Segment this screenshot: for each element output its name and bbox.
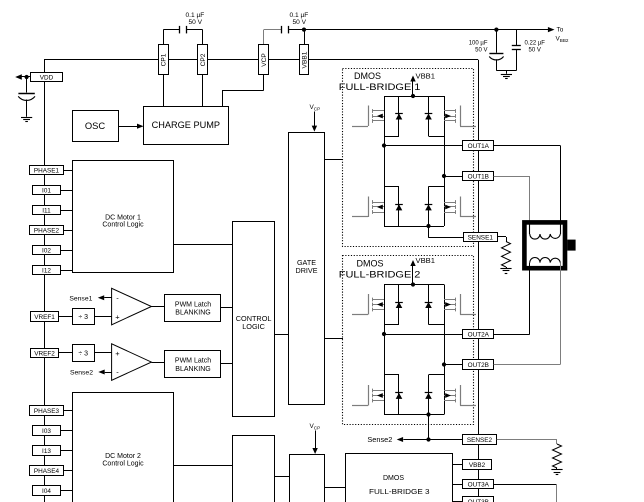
block PWM Latch Blanking 2 [165,351,221,378]
svg-text:Sense2: Sense2 [70,370,93,377]
svg-text:DMOS: DMOS [357,259,384,269]
wire - CP1 riser [163,30,165,45]
pin PHASE1 [30,166,64,175]
diode - bridge 2 low-side right body diode [428,375,430,415]
wire - OUT1A to motor [494,145,561,147]
pin PHASE4 [30,466,64,476]
wire - VCP pin to charge pump [263,75,265,90]
svg-text:100 µF: 100 µF [469,41,488,47]
svg-text:I01: I01 [42,188,51,195]
pin I03 [33,426,61,436]
divider (divide by 3) block 1 [73,309,95,325]
svg-text:DMOS: DMOS [383,473,404,482]
wire - motor to OUT2A [529,263,531,334]
svg-text:CP1: CP1 [161,53,168,66]
node - bridge 2 output B [442,362,446,366]
svg-text:50 V: 50 V [189,19,203,26]
block DMOS FULL-BRIDGE 3 [346,454,453,502]
wire - PWM latch 1 to control logic [221,307,233,309]
capacitor - 0.1uF pump cap CP1-CP2 [179,26,181,34]
wire - PWM latch 2 to control logic [221,363,233,365]
wire - bridge 3 to VBB2 pin [453,464,463,466]
wire - VDD bypass cap lead [26,77,28,93]
inductor - motor winding bottom [530,258,561,263]
wire - bridge 2 low-side left drain link [384,374,399,376]
pin VDD [31,73,63,82]
wire - bridge 2 low-side right drain link [429,374,445,376]
wire - I13 stub [44,450,72,452]
transistor - bridge 1 high-side left DMOS [373,110,385,112]
svg-text:VREF2: VREF2 [34,350,55,357]
node - bridge 2 VBB1 junction [411,282,415,286]
wire - bridge 2 top rail VBB1 [384,284,444,286]
VBB1 supply arrow bridge 2 [412,266,414,285]
wire - bridge 1 top rail VBB1 [384,96,444,98]
pin SENSE1 [464,233,498,242]
diode - bridge 2 high-side left body diode [398,285,400,325]
wire - bridge 1 high-side left source link [384,136,399,138]
svg-text:VREF1: VREF1 [34,314,55,321]
motor M1 (two windings) [524,222,565,268]
svg-text:0.1 µF: 0.1 µF [290,12,309,19]
VBB1 supply arrow bridge 1 [412,81,414,96]
svg-text:FULL-BRIDGE 2: FULL-BRIDGE 2 [339,270,421,280]
diode - bridge 1 low-side left body diode [398,186,400,226]
wire - I01 stub [44,190,72,192]
wire - bridge 1 bottom sense rail [384,226,444,228]
svg-text:OUT3A: OUT3A [468,481,490,488]
wire - VCP riser [263,30,265,45]
pin OUT2B [463,360,494,370]
svg-text:DMOS: DMOS [354,71,381,81]
block DC Motor 2 Control Logic [73,393,174,502]
svg-text:+: + [115,313,120,322]
transistor - bridge 2 low-side right DMOS [444,390,456,392]
block control logic 2 (bottom) [233,436,275,502]
wire - OSC to charge pump arrow [118,126,139,128]
pin OUT1A [463,141,494,151]
svg-text:50 V: 50 V [529,47,541,53]
svg-text:Sense2: Sense2 [367,437,392,444]
node - bridge 2 sense junction [426,412,430,416]
wire - gate drive 2 to bridge 3 [324,487,345,489]
node - bridge 1 output B [442,174,446,178]
capacitor - 0.22uF [512,45,521,47]
pin CP1 [159,45,169,75]
pin I02 [33,246,61,255]
wire - bridge 1 low-side left drain link [384,186,399,188]
diode - bridge 1 high-side left body diode [398,96,400,136]
pin OUT2A [463,330,494,339]
svg-text:OUT1B: OUT1B [468,173,489,180]
svg-text:PHASE2: PHASE2 [34,228,60,235]
svg-text:+: + [115,349,120,358]
svg-text:PWM Latch: PWM Latch [175,358,211,365]
wire - 0.22uF drop [516,30,518,46]
svg-text:OUT2A: OUT2A [468,331,490,338]
svg-text:OSC: OSC [85,120,106,131]
wire - SENSE1 to Rs1 [498,236,507,238]
oscillator OSC [73,111,119,142]
wire - bridge 1 high-side right source link [429,136,445,138]
block CHARGE PUMP [144,107,229,145]
svg-text:BLANKING: BLANKING [175,366,210,373]
wire - bridge 2 sense drop [428,415,430,440]
node - Sense2 junction [426,437,430,441]
wire - OUT2A tap [384,334,463,336]
off-page arrow to VDD supply [15,74,22,79]
wire - bridge 1 sense to SENSE1 pin [428,226,430,238]
capacitor - 0.1uF VCP-VBB1 cap [281,26,283,34]
wire - Sense2 line to SENSE2 pin [403,439,463,441]
arrow - Sense1 into comparator 1 [98,295,104,300]
svg-text:FULL-BRIDGE 3: FULL-BRIDGE 3 [369,487,430,496]
wire - CP1 pin to charge pump [163,75,165,106]
wire - bulk cap drop [496,30,498,53]
wire - PHASE3 stub [44,410,72,412]
svg-text:VDD: VDD [40,74,54,81]
arrow - Sense2 off to comparator [397,437,403,442]
pin VCP [259,45,269,75]
wire - I02 stub [44,250,72,252]
diode - bridge 2 low-side left body diode [398,375,400,415]
svg-text:DRIVE: DRIVE [296,266,318,275]
node - bridge 2 output A [382,332,386,336]
arrow to VBB2 [548,27,555,32]
wire - OUT3A to motor 2 [494,484,557,486]
pin OUT1B [463,172,494,181]
svg-text:SENSE2: SENSE2 [467,437,493,444]
wire - divider 1 to comparator plus [94,316,112,318]
pin I12 [33,266,61,275]
pin CP2 [198,45,208,75]
wire - OUT2B tap [444,364,463,366]
wire - PHASE4 stub [44,470,72,472]
wire - bridge 1 right branch [444,96,446,226]
svg-text:VBB1: VBB1 [416,72,436,81]
svg-text:BLANKING: BLANKING [175,310,210,317]
wire - divider 2 to comparator plus [94,352,112,354]
svg-text:LOGIC: LOGIC [242,322,265,331]
wire - right chip boundary [478,60,480,502]
svg-text:VCP: VCP [261,53,268,67]
node - bridge 1 VBB1 junction [411,94,415,98]
svg-text:DC Motor 1: DC Motor 1 [105,214,141,221]
svg-text:FULL-BRIDGE 1: FULL-BRIDGE 1 [339,82,421,92]
svg-text:Control Logic: Control Logic [102,222,144,229]
wire - SENSE2 to Rs2 [497,439,557,441]
pin OUT3A [463,480,494,489]
wire - left chip boundary / pin chain [44,60,46,502]
wire - VBB1 top rail to VBB2 [288,29,548,31]
wire - cap common to ground [496,70,516,72]
svg-text:I02: I02 [42,248,51,255]
svg-text:Control Logic: Control Logic [102,460,144,467]
wire - bridge 2 right branch [444,285,446,415]
resistor Rs1 [502,242,511,268]
transistor - bridge 2 high-side left DMOS [373,299,385,301]
wire - PHASE2 stub [44,230,72,232]
svg-text:I12: I12 [42,268,51,275]
svg-text:PHASE1: PHASE1 [34,168,60,175]
svg-text:÷ 3: ÷ 3 [78,314,88,321]
wire - VBB1 pin drop [304,30,306,45]
ground - VDD bypass cap [21,117,32,119]
svg-text:CHARGE PUMP: CHARGE PUMP [152,120,220,130]
wire - bridge 2 high-side right source link [429,324,445,326]
svg-text:PHASE3: PHASE3 [34,408,60,415]
op-amp comparator 2 [112,344,152,381]
svg-text:PWM Latch: PWM Latch [175,302,211,309]
wire - gate drive to bridge 1 [324,159,343,161]
node - VDD external junction [21,76,31,78]
wire - comparator 2 to PWM latch 2 [151,362,164,364]
svg-text:Sense1: Sense1 [69,295,92,302]
pin OUT3B [463,497,494,502]
transistor - bridge 1 low-side right DMOS [444,202,456,204]
svg-text:÷ 3: ÷ 3 [78,351,88,358]
wire - bridge 3 to OUT3B pin [453,501,464,502]
wire - I03 stub [44,430,72,432]
wire - control logic 2 to gate drive 2 [274,476,289,478]
svg-text:VBB2: VBB2 [469,462,486,469]
wire - bridge 2 high-side left source link [384,324,399,326]
node - VBB1 junction [302,28,306,32]
wire - PHASE1 stub [44,170,72,172]
svg-text:I03: I03 [42,428,51,435]
svg-text:I04: I04 [42,488,51,495]
svg-text:0.1 µF: 0.1 µF [186,12,205,19]
wire - comparator 1 to PWM latch 1 [151,306,164,308]
wire - CP2 riser [202,30,204,45]
transistor - bridge 1 low-side left DMOS [373,202,385,204]
inductor - motor winding top [530,234,561,239]
transistor - bridge 2 high-side right DMOS [444,299,456,301]
svg-text:OUT1A: OUT1A [468,143,490,150]
wire - control logic to gate drive [274,334,288,336]
svg-text:SENSE1: SENSE1 [468,234,494,241]
svg-text:VBB1: VBB1 [416,256,436,265]
wire - DC Motor 1 logic to control logic [174,244,233,246]
diode - bridge 1 low-side right body diode [428,186,430,226]
wire - I11 stub [44,210,72,212]
pin VREF1 [44,316,72,318]
svg-text:VBB1: VBB1 [301,51,308,68]
pin I04 [33,486,61,496]
pin I01 [33,186,61,195]
arrow - Sense2 into comparator 2 [98,370,104,375]
block CONTROL LOGIC [233,222,275,417]
diode - bridge 2 high-side right body diode [428,285,430,325]
pin PHASE3 [30,406,64,416]
svg-text:50 V: 50 V [475,47,487,53]
transistor - bridge 1 high-side right DMOS [444,110,456,112]
svg-text:CP2: CP2 [200,53,207,66]
capacitor - VDD bypass [18,93,34,95]
wire - motor to OUT2B [560,263,562,365]
ground - Rs1 [506,267,508,268]
ground - bulk caps [501,74,512,76]
node - bridge 1 sense junction [426,224,430,228]
wire - OUT1B tap [444,176,463,178]
wire - OUT1A tap [384,145,463,147]
node - bulk cap junction [494,28,498,32]
wire - bridge 2 bottom sense rail [384,414,444,416]
block DMOS FULL-BRIDGE 2 (dotted) [343,256,474,425]
divider (divide by 3) block 2 [73,345,95,362]
wire - bridge 1 low-side right drain link [429,186,445,188]
arrow - VCP into gate drive 2 [315,431,317,450]
wire - I12 stub [44,270,72,272]
block GATE DRIVE [289,133,325,405]
pin VBB2 [463,460,492,470]
wire - bridge 1 left branch [384,96,386,226]
pin PHASE2 [30,226,64,235]
svg-text:DC Motor 2: DC Motor 2 [105,453,141,460]
wire - VDD top supply rail [44,59,478,61]
wire - DC Motor 2 logic to control logic 2 [174,465,233,467]
block DC Motor 1 Control Logic [73,161,174,273]
svg-text:I13: I13 [42,448,51,455]
node - bridge 1 output A [382,143,386,147]
transistor - bridge 2 low-side left DMOS [373,390,385,392]
wire - CP2 pin to charge pump [202,75,204,106]
wire - bridge 2 left branch [384,285,386,415]
svg-text:50 V: 50 V [293,19,307,26]
wire - I04 stub [44,490,72,492]
resistor Rs2 [553,444,562,468]
block PWM Latch Blanking 1 [165,295,221,322]
pin SENSE2 [463,435,497,445]
op-amp comparator 1 [112,288,152,325]
arrow - VCP into gate drive 1 [314,112,316,127]
diode - bridge 1 high-side right body diode [428,96,430,136]
ground - Rs2 [556,468,558,469]
capacitor - 100uF bulk [489,53,503,55]
svg-text:I11: I11 [42,208,51,215]
block DMOS FULL-BRIDGE 1 (dotted) [343,69,474,247]
wire - bridge 3 to OUT3A pin [453,484,464,486]
svg-text:OUT2B: OUT2B [468,362,489,369]
wire - gate drive to bridge 2 [324,338,343,340]
pin VBB1 [300,45,309,75]
block GATE DRIVE 2 [290,455,325,502]
pin I11 [33,206,61,215]
pin I13 [33,446,61,456]
svg-text:To: To [557,27,564,34]
pin VREF2 [44,352,72,354]
svg-text:PHASE4: PHASE4 [34,468,60,475]
wire - OUT1B to motor [494,176,530,178]
svg-text:0.22 µF: 0.22 µF [525,41,546,47]
